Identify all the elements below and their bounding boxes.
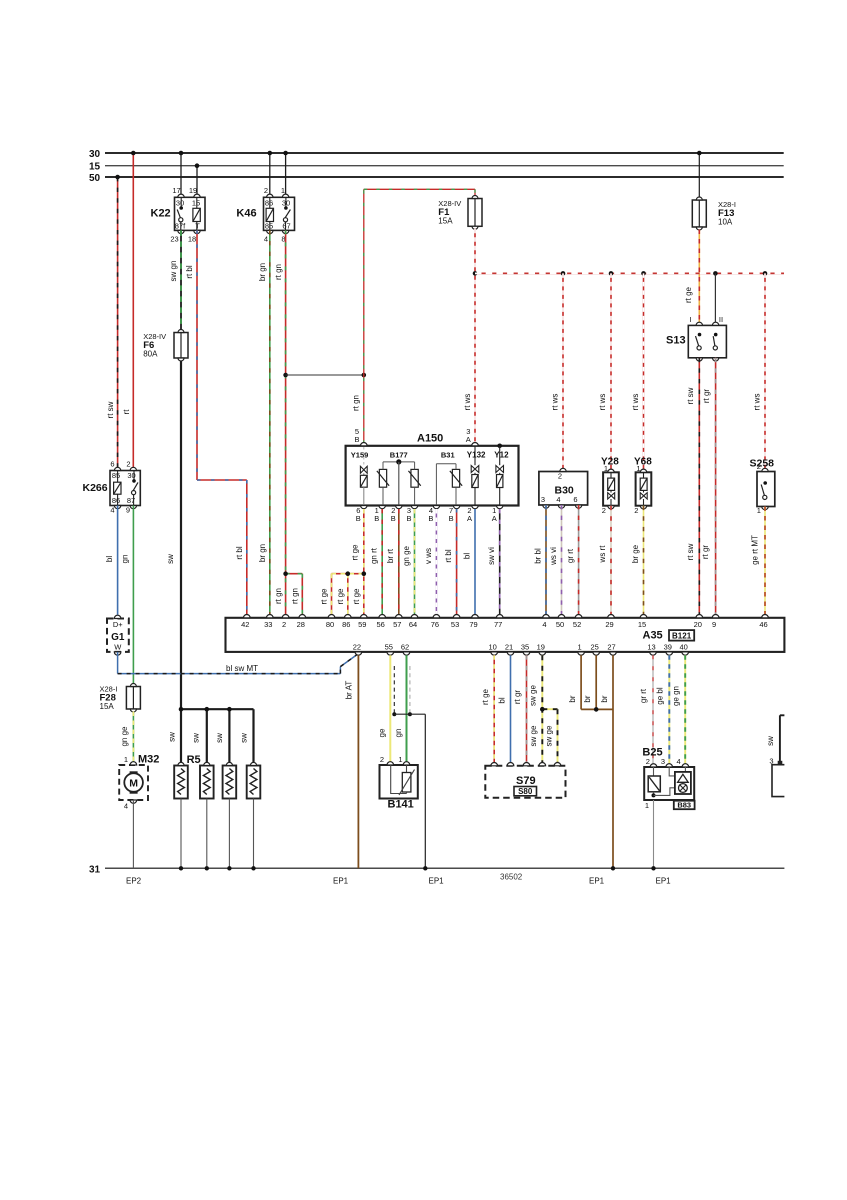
wire bus 30 to K22 pin 17 [179, 151, 184, 194]
svg-text:br bl: br bl [533, 548, 542, 564]
resistor R5 element 2 [200, 762, 214, 870]
node on feed line at B30 [561, 271, 566, 276]
svg-text:br gn: br gn [258, 263, 267, 281]
svg-text:ws vi: ws vi [549, 547, 558, 566]
svg-text:EP2: EP2 [126, 877, 142, 886]
svg-text:br gn: br gn [258, 544, 267, 562]
sensor B141 [380, 755, 418, 811]
wire ge gn A35 pin 40 to B25 pin 4 [672, 655, 686, 767]
wire rt ws to Y28 pin 1 [598, 273, 611, 471]
svg-text:B: B [354, 435, 359, 444]
svg-text:27: 27 [607, 643, 615, 652]
fuse F6 X28-IV 80A [143, 330, 188, 362]
svg-text:50: 50 [556, 620, 564, 629]
svg-text:gn: gn [394, 729, 403, 738]
svg-text:86: 86 [342, 620, 350, 629]
svg-text:ge bl: ge bl [656, 687, 665, 705]
wire rt ge A150 6B to A35 pins 80 86 59 [320, 509, 367, 618]
svg-text:1: 1 [281, 186, 285, 195]
svg-text:17: 17 [172, 186, 180, 195]
label box S80 [514, 787, 537, 797]
generator G1 [107, 615, 129, 655]
wire rt gn K46 pin 8 to A35 pins 2 and 28 [274, 230, 303, 617]
svg-text:10: 10 [489, 643, 497, 652]
wire B25 pin 1 to ground EP1 [651, 800, 655, 871]
svg-text:42: 42 [241, 620, 249, 629]
wire br A35 pin 25 to ground [583, 655, 598, 712]
wire gn ge F28 to M32 pin 1 [120, 712, 133, 763]
wire bus 15 to K22 pin 19 [195, 163, 200, 194]
wire rt ge F13 to S13 pin I [684, 230, 699, 323]
svg-text:K46: K46 [236, 208, 256, 220]
svg-text:T: T [195, 222, 200, 231]
svg-text:10A: 10A [718, 218, 733, 227]
svg-text:rt: rt [122, 409, 131, 415]
svg-text:rt ws: rt ws [631, 394, 640, 411]
svg-text:sw: sw [239, 733, 248, 743]
svg-text:ge: ge [378, 728, 387, 737]
svg-text:57: 57 [393, 620, 401, 629]
svg-text:2: 2 [757, 462, 761, 471]
bus line 50 [89, 173, 784, 184]
switch unit S79 [485, 762, 565, 797]
svg-text:1: 1 [645, 801, 649, 810]
svg-text:1: 1 [757, 506, 761, 515]
svg-text:S13: S13 [666, 335, 686, 347]
svg-text:gn rt: gn rt [370, 547, 379, 564]
svg-text:Y12: Y12 [494, 451, 509, 460]
svg-text:rt gr: rt gr [701, 545, 710, 560]
svg-text:9: 9 [126, 505, 130, 514]
svg-text:85: 85 [112, 471, 120, 480]
resistor R5 element 3 [223, 762, 237, 870]
svg-text:6: 6 [110, 460, 114, 469]
svg-text:3: 3 [541, 495, 545, 504]
node on feed line at S13 [713, 271, 718, 276]
svg-text:25: 25 [591, 643, 599, 652]
valve Y159 in A150 [351, 447, 369, 506]
svg-text:sw ge: sw ge [544, 725, 553, 746]
svg-text:15A: 15A [438, 216, 453, 225]
wire gr rt B30 pin 6 to A35 pin 52 [566, 505, 579, 618]
svg-text:62: 62 [401, 643, 409, 652]
svg-text:A150: A150 [417, 433, 443, 445]
svg-text:Y159: Y159 [351, 451, 369, 460]
svg-text:gr rt: gr rt [566, 548, 575, 563]
svg-text:4: 4 [264, 235, 268, 244]
svg-text:19: 19 [537, 643, 545, 652]
svg-text:sw vi: sw vi [487, 547, 496, 565]
partial component at page edge [769, 757, 784, 797]
wire br A35 pin 1 to ground [568, 655, 613, 709]
resistor R5 element 1 [174, 762, 188, 870]
svg-text:A: A [466, 435, 471, 444]
control unit A150 [346, 427, 519, 506]
svg-text:2: 2 [126, 460, 130, 469]
svg-text:rt gn: rt gn [291, 588, 300, 604]
svg-text:33: 33 [264, 620, 272, 629]
svg-text:39: 39 [664, 643, 672, 652]
svg-text:50: 50 [89, 173, 101, 184]
relay K22 [151, 186, 206, 244]
svg-text:15: 15 [192, 199, 200, 208]
control unit connector strip A35 [226, 618, 785, 652]
wire ge bl A35 pin 39 to B25 pin 3 [656, 655, 670, 767]
wire sw gn K22 pin 23 to fuse F6 [169, 230, 181, 330]
svg-text:B177: B177 [390, 451, 408, 460]
A150 bottom pin bumps [356, 506, 503, 524]
wire rt bl K22 pin 18 to A35 pin 42 [185, 230, 247, 617]
svg-text:rt gn: rt gn [352, 395, 361, 411]
svg-text:13: 13 [647, 643, 655, 652]
svg-text:ge rt MT: ge rt MT [751, 535, 760, 565]
svg-text:sw gn: sw gn [169, 261, 178, 282]
svg-text:86: 86 [265, 199, 273, 208]
sensor B177 in A150 [377, 451, 421, 506]
svg-text:1: 1 [604, 464, 608, 473]
resistor R5 element 4 [247, 762, 261, 870]
svg-text:80A: 80A [143, 349, 158, 358]
svg-text:15: 15 [638, 620, 646, 629]
svg-text:D+: D+ [113, 620, 123, 629]
svg-text:B: B [449, 514, 454, 523]
wire rt ws to Y68 pin 1 [631, 273, 644, 471]
svg-text:30: 30 [176, 199, 184, 208]
dashed feed line rt ws [475, 272, 784, 274]
fuse F13 X28-I 10A [692, 197, 736, 230]
svg-text:K22: K22 [151, 208, 171, 220]
svg-text:80: 80 [326, 620, 334, 629]
sensor B31 in A150 [436, 451, 462, 506]
svg-text:M: M [129, 778, 138, 790]
ignition switch S13 [666, 315, 726, 361]
wire sw feed to R5 resistors [168, 707, 254, 765]
svg-text:56: 56 [377, 620, 385, 629]
svg-text:rt gr: rt gr [513, 690, 522, 705]
svg-text:A: A [467, 514, 472, 523]
wire rt ws to B30 pin 2 [551, 273, 563, 471]
bus line 15 [89, 162, 784, 173]
svg-text:2: 2 [264, 186, 268, 195]
svg-text:59: 59 [358, 620, 366, 629]
wire bl A150 2A to A35 pin 79 [463, 509, 475, 618]
svg-text:br ge: br ge [631, 544, 640, 563]
svg-text:4: 4 [542, 620, 546, 629]
svg-text:gn ge: gn ge [120, 726, 129, 747]
svg-text:2: 2 [282, 620, 286, 629]
svg-text:3: 3 [661, 757, 665, 766]
wire gn A35 pin 62 to B141 pin 1 [394, 655, 407, 762]
svg-text:br AT: br AT [345, 681, 354, 700]
svg-text:85: 85 [265, 222, 273, 231]
wire br gn K46 pin 4 to A35 pin 33 [258, 230, 270, 617]
wire br A35 pin 27 to ground EP1 [600, 655, 615, 870]
svg-text:30: 30 [89, 149, 101, 160]
svg-text:rt gr: rt gr [702, 389, 711, 404]
node on feed line at Y28 [609, 271, 614, 276]
wire gr rt A35 pin 13 to B25 pin 2 [639, 655, 653, 767]
svg-text:rt ws: rt ws [752, 394, 761, 411]
svg-text:sw: sw [192, 733, 201, 743]
svg-text:4: 4 [677, 757, 681, 766]
svg-text:sw ge: sw ge [528, 685, 537, 706]
link wire K46 pin 8 to F1 riser [286, 373, 367, 378]
svg-text:52: 52 [573, 620, 581, 629]
svg-text:55: 55 [385, 643, 393, 652]
svg-text:rt gn: rt gn [274, 264, 283, 280]
svg-text:1: 1 [578, 643, 582, 652]
wire bus 30 to fuse F13 [697, 151, 702, 198]
wire bl K266 pin 4 to G1 [105, 506, 118, 615]
svg-text:bl sw MT: bl sw MT [226, 664, 258, 673]
svg-text:Y132: Y132 [467, 451, 486, 460]
motor M32 [119, 754, 159, 811]
svg-text:br: br [583, 695, 592, 702]
svg-text:rt ge: rt ge [350, 544, 359, 561]
wire M32 pin 4 to ground EP2 [132, 800, 134, 868]
svg-text:2: 2 [646, 757, 650, 766]
fuse F28 X28-I 15A [100, 684, 141, 713]
wire rt ws F1 to A150 pin 3A [463, 229, 478, 444]
svg-text:86: 86 [112, 496, 120, 505]
svg-text:W: W [114, 642, 122, 651]
svg-text:B: B [374, 514, 379, 523]
svg-text:rt ge: rt ge [352, 588, 361, 605]
wire ws vi B30 pin 4 to A35 pin 50 [549, 505, 562, 618]
wire br AT A35 pin 22 to ground EP1 [345, 655, 359, 868]
svg-text:rt ge: rt ge [336, 588, 345, 605]
svg-text:B141: B141 [388, 799, 414, 811]
svg-text:EP1: EP1 [333, 877, 349, 886]
svg-text:EP1: EP1 [429, 877, 445, 886]
svg-text:1: 1 [124, 755, 128, 764]
relay K46 [236, 186, 294, 244]
wire sw to partial connector pin 3 [766, 715, 784, 762]
svg-text:36502: 36502 [500, 873, 523, 882]
wire bl A35 pin 21 to S79 [497, 655, 510, 763]
svg-text:79: 79 [469, 620, 477, 629]
wire rt sw from bus 50 to K266 pin 6 [106, 175, 120, 468]
svg-text:rt ge: rt ge [320, 588, 329, 605]
wire ws rt Y28 pin 2 to A35 pin 29 [598, 506, 611, 618]
wire br bl B30 pin 3 to A35 pin 4 [533, 505, 546, 618]
svg-text:4: 4 [124, 802, 128, 811]
wire rt sw S13 pin I to A35 pin 20 [686, 358, 700, 618]
svg-text:sw ge: sw ge [529, 725, 538, 746]
svg-text:A35: A35 [643, 630, 663, 642]
svg-text:S79: S79 [516, 775, 536, 787]
svg-text:ge gn: ge gn [672, 686, 681, 706]
svg-text:B83: B83 [677, 801, 691, 810]
wire sw vi A150 1A to A35 pin 77 [487, 509, 500, 618]
svg-text:77: 77 [494, 620, 502, 629]
svg-text:19: 19 [189, 186, 197, 195]
shield line at ge wire [392, 666, 396, 716]
svg-text:K266: K266 [83, 482, 108, 494]
svg-text:I: I [689, 315, 691, 324]
sensor unit B25 with horn B83 [642, 747, 694, 811]
svg-text:2: 2 [602, 506, 606, 515]
wire ge A35 pin 55 to B141 pin 2 [378, 655, 391, 762]
shield drain wire to ground EP1 [394, 714, 427, 870]
svg-text:bl: bl [463, 553, 472, 559]
valve Y132 in A150 [467, 446, 486, 506]
svg-text:21: 21 [505, 643, 513, 652]
svg-text:br rt: br rt [386, 548, 395, 563]
wire v ws A150 4B to A35 pin 76 [424, 509, 437, 618]
wire gn rt A150 1B to A35 pin 56 [370, 509, 383, 618]
bus line 30 [89, 149, 784, 160]
wire rt bl A150 7B to A35 pin 53 [444, 509, 457, 618]
svg-text:v ws: v ws [424, 548, 433, 564]
switch S258 [750, 458, 775, 516]
wire rt gr A35 pin 35 to S79 [513, 655, 527, 763]
svg-text:gr rt: gr rt [639, 688, 648, 703]
wire rt from bus 30 to K266 pin 2 [122, 151, 135, 468]
ground line 31 [89, 864, 784, 875]
A35 bottom pin bumps and numbers [353, 643, 689, 656]
wire rt ws to S258 pin 2 [752, 273, 765, 468]
wire sw below F6 to R5 feed [166, 361, 181, 710]
svg-text:B: B [428, 514, 433, 523]
svg-text:R5: R5 [187, 754, 201, 766]
svg-text:6: 6 [573, 495, 577, 504]
valve Y68 [634, 457, 652, 515]
svg-text:A: A [492, 514, 497, 523]
wire br rt A150 2B to A35 pin 57 [386, 509, 399, 618]
svg-text:1: 1 [398, 755, 402, 764]
svg-text:rt sw: rt sw [686, 543, 695, 560]
fuse F1 X28-IV 15A [438, 196, 482, 230]
wire br ge Y68 pin 2 to A35 pin 15 [631, 506, 644, 618]
svg-text:gn: gn [121, 555, 130, 564]
svg-text:br: br [568, 695, 577, 702]
svg-text:B: B [356, 514, 361, 523]
svg-text:rt ws: rt ws [598, 394, 607, 411]
svg-text:2: 2 [558, 472, 562, 481]
svg-text:rt gn: rt gn [274, 588, 283, 604]
svg-text:EP1: EP1 [656, 877, 672, 886]
svg-text:gn ge: gn ge [402, 545, 411, 566]
valve Y12 in A150 [494, 446, 509, 506]
svg-text:bl: bl [105, 556, 114, 562]
svg-text:46: 46 [759, 620, 767, 629]
sensor unit B30 [539, 468, 588, 508]
svg-text:31: 31 [89, 864, 101, 875]
svg-text:rt sw: rt sw [686, 387, 695, 404]
svg-text:B: B [391, 514, 396, 523]
svg-text:67: 67 [282, 222, 290, 231]
svg-text:28: 28 [297, 620, 305, 629]
A35 top pin bumps and numbers [241, 614, 768, 629]
wire ge rt MT S258 pin 1 to A35 pin 46 [751, 507, 765, 618]
wire gn K266 pin 9 to F28 [121, 506, 134, 685]
svg-text:2: 2 [380, 755, 384, 764]
relay K266 [83, 460, 141, 515]
svg-text:22: 22 [353, 643, 361, 652]
wire to S13 pin II [714, 273, 716, 322]
valve Y28 [601, 457, 619, 515]
node on feed line at Y68 [641, 271, 646, 276]
svg-text:S258: S258 [750, 458, 775, 470]
svg-text:29: 29 [605, 620, 613, 629]
svg-text:76: 76 [431, 620, 439, 629]
svg-text:35: 35 [521, 643, 529, 652]
wire bus 30 to K46 pin 2 [268, 151, 273, 194]
svg-text:53: 53 [451, 620, 459, 629]
svg-text:II: II [719, 315, 723, 324]
wire bus 30 to K46 pin 1 [283, 151, 288, 194]
svg-text:9: 9 [712, 620, 716, 629]
svg-text:rt ws: rt ws [463, 394, 472, 411]
svg-text:rt bl: rt bl [235, 546, 244, 560]
svg-text:1: 1 [636, 464, 640, 473]
svg-text:sw: sw [168, 732, 177, 742]
svg-text:bl: bl [497, 697, 506, 703]
svg-text:br: br [600, 695, 609, 702]
svg-text:3: 3 [769, 757, 773, 766]
svg-text:rt bl: rt bl [444, 549, 453, 563]
svg-text:ws rt: ws rt [598, 545, 607, 564]
node on feed line at S258 [763, 271, 768, 276]
svg-text:18: 18 [188, 235, 196, 244]
svg-text:rt ge: rt ge [684, 286, 693, 303]
wire gn ge A150 3B to A35 pin 64 [402, 509, 415, 618]
shield line at gn wire [408, 666, 412, 716]
svg-text:sw: sw [166, 554, 175, 564]
svg-text:EP1: EP1 [589, 877, 605, 886]
svg-text:2: 2 [634, 506, 638, 515]
svg-text:B31: B31 [441, 451, 455, 460]
svg-text:40: 40 [680, 643, 688, 652]
svg-text:rt ge: rt ge [481, 688, 490, 705]
svg-text:15: 15 [89, 162, 101, 173]
svg-text:B: B [406, 514, 411, 523]
svg-text:20: 20 [694, 620, 702, 629]
label box B83 [674, 801, 695, 810]
wire rt gr S13 pin II to A35 pin 9 [701, 358, 716, 618]
svg-text:4: 4 [110, 505, 114, 514]
wire rt ge A35 pin 10 to S79 [481, 655, 494, 763]
svg-text:23: 23 [170, 235, 178, 244]
node A150 top edge to Y12 [497, 444, 502, 449]
svg-text:S80: S80 [518, 787, 533, 796]
svg-text:rt sw: rt sw [106, 401, 115, 418]
svg-text:64: 64 [409, 620, 417, 629]
wire bl sw MT G1 W to A35 pin 22 [118, 652, 359, 674]
svg-text:rt ws: rt ws [551, 394, 560, 411]
svg-text:sw: sw [766, 736, 775, 746]
svg-text:15A: 15A [100, 702, 115, 711]
svg-text:4: 4 [556, 495, 560, 504]
svg-text:rt bl: rt bl [185, 265, 194, 279]
wire rt gn riser F1 to A150 pin 5B [352, 189, 475, 443]
wire sw ge A35 pin 19 to S79 [528, 655, 557, 763]
label box B121 [669, 630, 694, 641]
svg-text:B121: B121 [672, 632, 692, 641]
svg-text:M32: M32 [138, 754, 159, 766]
svg-text:sw: sw [215, 733, 224, 743]
